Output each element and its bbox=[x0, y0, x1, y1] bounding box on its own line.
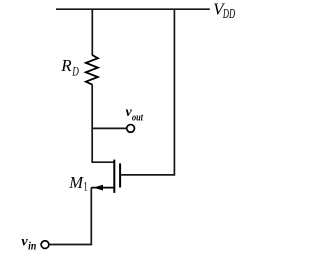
transistor M1 gate bar bbox=[119, 163, 121, 187]
wire resistor to drain corner bbox=[92, 84, 114, 162]
terminal vin circle bbox=[41, 241, 49, 249]
svg-text:RD: RD bbox=[60, 56, 79, 78]
wire VDD rail bbox=[56, 8, 210, 10]
wire source down to vin corner bbox=[49, 188, 91, 245]
transistor M1 source lead bbox=[91, 187, 114, 189]
svg-text:M1: M1 bbox=[68, 173, 87, 194]
wire gate lead bbox=[121, 174, 175, 176]
wire rail to resistor bbox=[91, 9, 93, 56]
terminal vout circle bbox=[127, 125, 135, 133]
svg-text:vout: vout bbox=[126, 105, 144, 123]
wire vout stub bbox=[92, 127, 127, 129]
transistor M1 channel bar bbox=[113, 160, 115, 193]
resistor RD bbox=[86, 55, 98, 85]
svg-text:vin: vin bbox=[21, 235, 36, 253]
transistor M1 source arrow bbox=[93, 185, 103, 191]
svg-text:VDD: VDD bbox=[213, 0, 235, 21]
wire right branch from rail to gate bbox=[121, 9, 174, 175]
